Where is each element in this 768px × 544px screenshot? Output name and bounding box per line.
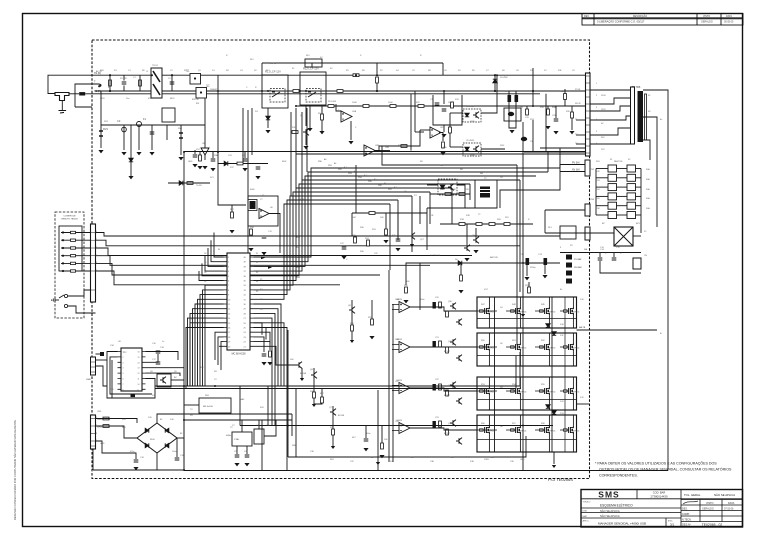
ground C21 bbox=[244, 463, 249, 466]
driver resistor R41 bbox=[446, 347, 449, 353]
mosfet Q18 arrow bbox=[487, 390, 489, 393]
connector CN2 pin ticks bbox=[586, 75, 591, 77]
svg-text:* PARA OBTER OS VALORES UTILIZ: * PARA OBTER OS VALORES UTILIZADOS E AS … bbox=[595, 461, 717, 466]
wire R9 bbox=[321, 106, 323, 114]
remote line 6 bbox=[61, 270, 96, 272]
faston link wire 1 bbox=[617, 168, 628, 170]
ground D1 bbox=[128, 176, 133, 179]
ground R35 bbox=[569, 131, 574, 134]
bus descent 7 bbox=[411, 196, 413, 252]
U1 left pin wire c2 bbox=[186, 328, 224, 390]
vertical x184 lower bbox=[183, 386, 185, 471]
Q8 chain wire bbox=[351, 300, 353, 340]
svg-text:27380014439: 27380014439 bbox=[650, 495, 668, 499]
mosfet Q19 arrow bbox=[518, 390, 520, 393]
optocoupler U11 dashed bbox=[438, 179, 457, 195]
faston terminal pair 3 left bbox=[608, 184, 617, 191]
remote resistor RR3 bbox=[71, 247, 76, 249]
U1 fan extra 2 bbox=[254, 328, 288, 471]
U1 left pin wire c3 bbox=[215, 332, 224, 360]
AC plug earth stem bbox=[61, 101, 63, 111]
C27 wire bbox=[397, 213, 399, 238]
svg-text:470u: 470u bbox=[130, 451, 134, 453]
svg-text:DESENHO CONFECCIONADO POR COMP: DESENHO CONFECCIONADO POR COMPUTADOR NÃO… bbox=[12, 420, 17, 520]
resistor R24 bbox=[103, 417, 109, 420]
mosfet Q10 bbox=[482, 307, 489, 316]
bus descent 8 bbox=[397, 200, 399, 240]
wire under relays bbox=[218, 163, 268, 165]
crystal Y1 ring bbox=[248, 200, 257, 211]
Q6 arrow bbox=[312, 404, 316, 407]
signal arrow pin40 bbox=[261, 256, 265, 259]
varistor RV2 drop bbox=[180, 125, 182, 155]
ground R40 bbox=[403, 300, 408, 303]
double rail bend bbox=[519, 352, 521, 386]
faston link wire 5 bbox=[617, 205, 628, 207]
U1 left pin wire b7 bbox=[190, 313, 224, 386]
snubber gnd wire bbox=[443, 125, 445, 132]
SAI wire NV bbox=[500, 172, 586, 209]
bus descent 4 bbox=[469, 184, 471, 200]
mosfet Q13 arrow bbox=[571, 310, 573, 313]
ground snubber bbox=[441, 134, 446, 137]
opto feed bbox=[449, 113, 451, 147]
C28 wire bbox=[365, 426, 367, 439]
junction dots on buses bbox=[151, 74, 153, 76]
svg-text:B-: B- bbox=[660, 333, 662, 335]
U1 pin ticks and numbers bbox=[224, 256, 254, 258]
U1 bottom fan 2 bbox=[254, 342, 271, 350]
svg-text:IRFZ44: IRFZ44 bbox=[549, 312, 555, 314]
T1 secondary wire top bbox=[643, 90, 668, 470]
relay RL2 coil top bbox=[305, 59, 322, 67]
bridge right wire bbox=[177, 437, 184, 439]
PCB dashed boundary bbox=[92, 40, 590, 479]
svg-text:BUS: BUS bbox=[282, 161, 287, 163]
transformer T1 secondary bbox=[645, 94, 647, 140]
mosfet Q14 arrow bbox=[487, 346, 489, 349]
U5 input wire bbox=[450, 146, 463, 148]
capacitor C19 bbox=[175, 458, 180, 460]
ground Q9 bbox=[473, 250, 478, 253]
R46 wire up bbox=[321, 389, 323, 398]
svg-text:115V: 115V bbox=[601, 109, 606, 111]
C9 C10 gnd wire bbox=[509, 102, 516, 128]
remote pin 1 bbox=[62, 231, 64, 233]
resistor R31 bbox=[367, 240, 370, 246]
ground C27 bbox=[395, 248, 400, 251]
LV rail left drop bbox=[183, 152, 185, 470]
double rail bend2 bbox=[515, 356, 517, 389]
capacitor C22 bbox=[342, 247, 347, 249]
C21 wire bbox=[246, 446, 248, 454]
remote resistor RR4 bbox=[71, 255, 76, 257]
svg-text:C3: C3 bbox=[117, 119, 121, 123]
C29 wire bbox=[96, 353, 101, 355]
ground C20 bbox=[234, 463, 239, 466]
SAI drop PV bbox=[532, 120, 534, 151]
U2C input wire bbox=[420, 129, 430, 131]
capacitor C32 black oval bbox=[521, 137, 527, 141]
svg-text:2200u: 2200u bbox=[530, 267, 536, 269]
U4 output wire bbox=[481, 76, 497, 113]
bridge bottom drop 1 bbox=[522, 452, 524, 470]
output rail wire bbox=[560, 252, 641, 254]
svg-text:BAT 24V: BAT 24V bbox=[490, 256, 498, 259]
U8 bottom wire bbox=[111, 386, 113, 398]
svg-text:USB: USB bbox=[86, 379, 91, 381]
resistor R25 bbox=[103, 425, 109, 428]
riser continuation 1 bbox=[290, 112, 292, 196]
mosfet Q19 bbox=[513, 387, 520, 396]
svg-text:IRFZ44: IRFZ44 bbox=[520, 392, 526, 394]
svg-text:MAX: MAX bbox=[240, 398, 245, 401]
wire R9b bbox=[321, 120, 323, 131]
svg-text:NV BAT: NV BAT bbox=[574, 266, 582, 269]
wire D2-R3 row bbox=[168, 182, 210, 184]
assinatura diagonal bbox=[683, 501, 698, 504]
svg-text:PV IN: PV IN bbox=[575, 89, 581, 91]
T1 tap wire 2 bbox=[590, 98, 631, 104]
U1 left pin wire 3 bbox=[208, 248, 224, 266]
RL3 left wire bbox=[545, 232, 560, 234]
junction R43 bbox=[355, 74, 357, 76]
svg-text:MC 68 HC08: MC 68 HC08 bbox=[232, 353, 246, 356]
R34 wire bbox=[547, 106, 549, 109]
svg-text:IRFZ44: IRFZ44 bbox=[573, 431, 579, 433]
U1 fan extra 1 bbox=[254, 323, 285, 386]
svg-text:TÍTULO: TÍTULO bbox=[583, 501, 591, 504]
transistor Q2 line switch bbox=[196, 88, 207, 99]
ground divider1 bbox=[307, 128, 312, 131]
faston right vertical bbox=[640, 169, 642, 234]
snubber loop bbox=[433, 95, 462, 125]
transistor Q6 bbox=[311, 372, 317, 379]
junction C2 top bbox=[171, 74, 173, 76]
mosfet Q25 bbox=[566, 426, 573, 435]
svg-text:05 05 05: 05 05 05 bbox=[724, 20, 734, 23]
ground F1 bbox=[136, 152, 141, 155]
remote line 1 bbox=[61, 232, 96, 234]
capacitor C11 bbox=[262, 236, 267, 238]
capacitor C7 bbox=[435, 103, 440, 105]
riser continuation 2 bbox=[295, 108, 297, 188]
component box U10 bbox=[254, 429, 264, 444]
Q27 wire bbox=[411, 213, 413, 233]
svg-text:Q1: Q1 bbox=[186, 69, 190, 73]
svg-text:U2A: U2A bbox=[352, 110, 357, 113]
driver resistor R42 bbox=[446, 390, 449, 396]
mosfet Q15 bbox=[513, 343, 520, 352]
transistor Q4 bbox=[464, 245, 470, 252]
U5 internal transistor bbox=[473, 146, 479, 153]
svg-text:DES.Nº: DES.Nº bbox=[682, 523, 691, 527]
junction input a bbox=[109, 74, 111, 76]
faston join vertical bbox=[595, 169, 597, 216]
svg-text:PWR: PWR bbox=[484, 459, 489, 461]
mid rail 425 bbox=[240, 425, 553, 427]
svg-text:NV IN: NV IN bbox=[575, 103, 581, 105]
U2C out route bbox=[439, 133, 443, 142]
svg-text:U7A: U7A bbox=[395, 298, 400, 301]
wire mid 194 bbox=[430, 193, 470, 195]
wire C2 drop bbox=[171, 75, 173, 91]
remote line 3 bbox=[61, 247, 96, 249]
ground relay1 bbox=[265, 130, 270, 133]
double rail upper bbox=[155, 385, 520, 387]
LV supply rail lower line bbox=[296, 153, 586, 155]
Q6 chain wire bbox=[313, 368, 315, 404]
optocoupler U4 dashed bbox=[463, 109, 481, 122]
U1 left pin gnd bbox=[219, 345, 224, 347]
U4 internal transistor bbox=[473, 112, 479, 119]
svg-text:8: 8 bbox=[123, 389, 124, 391]
title block grid bbox=[581, 490, 743, 528]
connector CN3 pin b bbox=[585, 227, 590, 240]
faston link wire 4 bbox=[617, 195, 628, 197]
U10 out bbox=[264, 420, 276, 436]
resistor R52 bbox=[439, 384, 442, 390]
svg-text:D5 ZNR: D5 ZNR bbox=[500, 77, 508, 79]
Q3 emitter bbox=[305, 135, 307, 145]
remote switch wire up bbox=[68, 290, 96, 296]
svg-text:RN 4x10K: RN 4x10K bbox=[203, 406, 214, 408]
U5 internal diode bbox=[465, 147, 469, 151]
resistor R29 bbox=[371, 319, 374, 325]
opamp feed vertical 2 bbox=[392, 304, 394, 462]
C19 wire bbox=[176, 438, 178, 457]
capacitor C15 bbox=[612, 258, 617, 260]
resistor R9 bbox=[321, 114, 324, 120]
U1 bottom fan 3 bbox=[254, 346, 297, 365]
svg-text:BC548: BC548 bbox=[300, 373, 307, 375]
U4 input wire bbox=[450, 112, 463, 114]
svg-text:6: 6 bbox=[123, 379, 124, 381]
vertical x378 lower bbox=[377, 390, 379, 471]
bus descent to opamps 1 bbox=[559, 148, 561, 168]
wire bat rail left bbox=[406, 263, 420, 285]
svg-text:IRFZ44: IRFZ44 bbox=[549, 348, 555, 350]
U1 left pin wire c4 bbox=[218, 337, 224, 365]
opamp column vertical 3 bbox=[516, 165, 518, 345]
capacitor C12 electrolytic bbox=[526, 258, 530, 265]
connector CN2 body bbox=[586, 73, 591, 156]
capacitor C25 bbox=[243, 159, 248, 161]
relay RL3 box bbox=[560, 226, 576, 239]
U7D out wire bbox=[410, 428, 477, 430]
resistor R40 bbox=[405, 287, 408, 293]
AC plug body bbox=[55, 93, 69, 101]
resistor R22 bbox=[528, 287, 531, 293]
mosfet Q11 arrow bbox=[518, 310, 520, 313]
C24 wire bbox=[212, 152, 214, 158]
R45 wire bbox=[385, 213, 387, 229]
relay drop mid bbox=[242, 108, 244, 163]
faston terminal pair 2 right bbox=[627, 174, 636, 181]
svg-text:GERALDO: GERALDO bbox=[702, 508, 714, 511]
AC plug earth mark bbox=[59, 111, 67, 114]
capacitor C28 bbox=[364, 439, 369, 441]
zener D5 wire bbox=[494, 75, 496, 91]
CN3a wire bbox=[545, 209, 585, 211]
resistor R42 bbox=[337, 90, 343, 93]
Q8 arrow bbox=[350, 340, 354, 343]
ground C3 bbox=[121, 152, 126, 155]
earth pigtail hook bbox=[99, 84, 102, 87]
Q4 wire bbox=[466, 224, 468, 245]
junction D5 bot bbox=[494, 90, 496, 92]
svg-text:PIC: PIC bbox=[123, 352, 127, 354]
svg-text:3: 3 bbox=[123, 362, 124, 364]
U1 left pin wire 2 bbox=[211, 240, 224, 262]
driver transistor Q30 bbox=[450, 303, 456, 310]
U1 right bus wire 6 bbox=[254, 188, 453, 281]
relay drop mid2 bbox=[251, 108, 253, 155]
mosfet Q10 arrow bbox=[487, 310, 489, 313]
wire R4 bottom bbox=[376, 83, 378, 91]
capacitor C14 bbox=[598, 258, 603, 260]
svg-text:DATA: DATA bbox=[726, 15, 732, 18]
faston feed wire 5 bbox=[596, 205, 608, 207]
U1 right bus wire 8 bbox=[254, 196, 413, 290]
RN1 wire bbox=[184, 404, 199, 406]
transistor Q8 bbox=[349, 307, 355, 314]
U1 left pin wire 5 bbox=[202, 263, 224, 275]
faston terminal stubs bbox=[636, 168, 642, 170]
svg-text:IRFZ44: IRFZ44 bbox=[520, 348, 526, 350]
svg-text:4MHz: 4MHz bbox=[226, 435, 231, 437]
spark gap SG1 bbox=[162, 108, 175, 122]
T1 tap wire 5 bbox=[590, 128, 631, 135]
svg-text:100K: 100K bbox=[352, 102, 357, 104]
fuse link FB3 bbox=[566, 263, 572, 268]
remote bus wire 5 bbox=[96, 263, 381, 275]
svg-text:275V: 275V bbox=[100, 98, 105, 100]
svg-text:IRFZ44: IRFZ44 bbox=[549, 431, 555, 433]
H-bridge column wire x523 bbox=[522, 297, 524, 452]
C9 drop bbox=[508, 91, 510, 95]
svg-text:IRFZ44: IRFZ44 bbox=[489, 312, 495, 314]
svg-text:BC327: BC327 bbox=[444, 311, 451, 313]
diode D13 bbox=[552, 411, 556, 415]
capacitor C10 electrolytic bbox=[515, 95, 519, 102]
svg-text:1u: 1u bbox=[162, 341, 164, 343]
R35 wire a bbox=[571, 106, 573, 112]
U8 right wires 1 bbox=[146, 352, 179, 361]
svg-text:07 03 06: 07 03 06 bbox=[724, 508, 734, 511]
varistor RV1 bbox=[99, 131, 103, 136]
svg-text:CONTROLE: CONTROLE bbox=[63, 216, 76, 218]
capacitor C9 electrolytic bbox=[508, 95, 512, 102]
ground C13 bbox=[542, 275, 547, 278]
capacitor C29 smd bbox=[100, 352, 104, 356]
C13 gnd wire bbox=[544, 265, 546, 274]
C23 wire bbox=[555, 106, 557, 118]
aux transformer core bbox=[480, 187, 490, 198]
connector CN1 pin ticks bbox=[91, 232, 96, 234]
resistor R1 input bbox=[109, 80, 112, 86]
driver transistor Q37 bbox=[456, 438, 462, 445]
bridge bottom arrow bbox=[552, 465, 556, 468]
bottom rail left bbox=[93, 469, 184, 471]
H-bridge column wire x552 bbox=[551, 297, 553, 452]
svg-text:IRFZ44: IRFZ44 bbox=[489, 392, 495, 394]
aux supply loop bbox=[427, 207, 497, 209]
ground C25 bbox=[242, 168, 247, 171]
svg-text:P.CI TE0206S: P.CI TE0206S bbox=[548, 477, 573, 482]
svg-text:SAI: SAI bbox=[584, 248, 588, 251]
ground C28 bbox=[363, 448, 368, 451]
svg-text:REV.: REV. bbox=[584, 15, 590, 18]
resistor R4 on drop bbox=[376, 77, 379, 83]
aux vertical 1 bbox=[426, 208, 428, 250]
svg-text:IRFZ44: IRFZ44 bbox=[549, 392, 555, 394]
CN2 stub 5 bbox=[576, 134, 586, 136]
snubber drop bbox=[443, 91, 445, 104]
relay2 coil drop bbox=[305, 105, 307, 126]
op-amp driver U7A bbox=[399, 302, 410, 313]
bus descent 2 bbox=[547, 152, 549, 172]
U2C input feed bbox=[415, 131, 424, 133]
transistor Q26 bbox=[296, 362, 302, 369]
SAI wire PV bbox=[560, 165, 586, 172]
faston terminal pair 4 left bbox=[608, 193, 617, 200]
transistor Q5 bbox=[160, 377, 166, 384]
faston terminal pair 6 left bbox=[608, 212, 617, 219]
signal arrow pin38 bbox=[268, 266, 272, 269]
mosfet Q17 bbox=[566, 343, 573, 352]
varistor row feed wire bbox=[101, 91, 205, 125]
faston terminal pair 3 right bbox=[627, 184, 636, 191]
resistor R35 bbox=[571, 112, 574, 118]
resistor R11 bbox=[237, 162, 243, 165]
bridge bottom drop 2 bbox=[553, 452, 555, 464]
relay1 coil drop bbox=[267, 108, 269, 128]
resistor R28 bbox=[351, 325, 354, 331]
svg-text:DRV: DRV bbox=[500, 145, 505, 147]
ground divider2 bbox=[348, 141, 353, 144]
riser continuation 3 bbox=[301, 112, 303, 180]
vertical x268 lower bbox=[267, 386, 269, 426]
U11 output wire bbox=[457, 185, 465, 208]
U11 input wire bbox=[427, 184, 438, 186]
capacitor C20 electrolytic bbox=[433, 302, 436, 309]
bottom long rail bbox=[184, 470, 668, 472]
connector CN3 pin a bbox=[585, 204, 590, 216]
ground R45 bbox=[383, 240, 388, 243]
output return wire bbox=[600, 261, 641, 273]
diode D11 bbox=[552, 332, 556, 336]
svg-text:DES.: DES. bbox=[682, 508, 688, 511]
capacitor C8 bbox=[442, 109, 447, 111]
op-amp U2C bbox=[430, 127, 441, 138]
resistor R30 bbox=[354, 237, 357, 243]
transistor box Q5 bbox=[157, 374, 171, 387]
R17 wire bbox=[231, 205, 233, 212]
aux control wire bbox=[352, 212, 427, 214]
faston terminal pair 5 left bbox=[608, 202, 617, 209]
relay RL1 box bbox=[262, 75, 288, 108]
mosfet Q12 arrow bbox=[547, 310, 549, 313]
svg-text:R5 100K: R5 100K bbox=[328, 101, 337, 103]
U1 left pin wire b1 bbox=[205, 285, 224, 386]
mosfet Q16 arrow bbox=[547, 346, 549, 349]
ground C22 bbox=[341, 256, 346, 259]
H-bridge row 2 frame bbox=[477, 333, 577, 366]
junction bus 533 bbox=[532, 90, 534, 92]
vertical x240 lower bbox=[239, 386, 241, 426]
resistor R32 bbox=[445, 193, 451, 196]
